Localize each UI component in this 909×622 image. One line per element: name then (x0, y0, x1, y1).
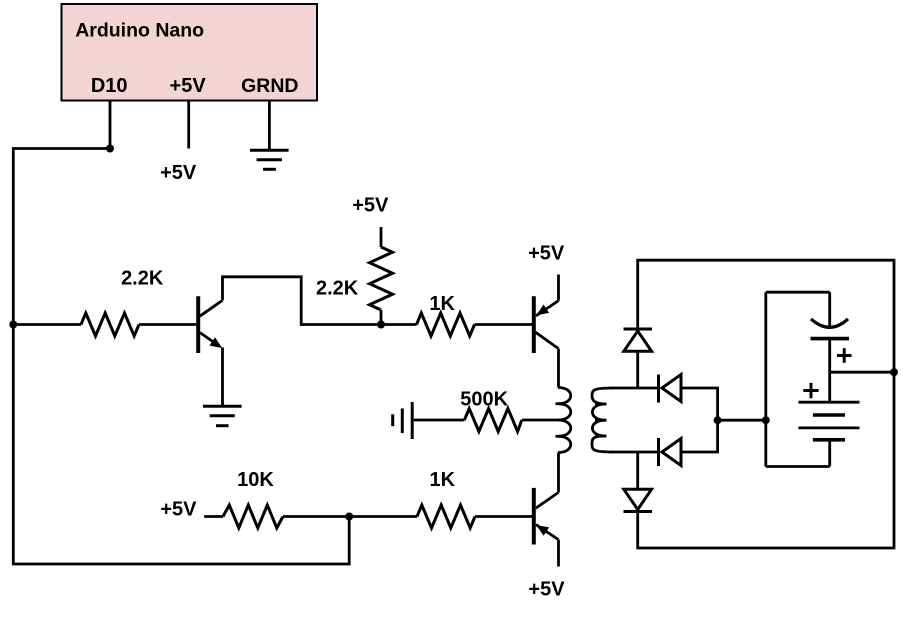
wire R2 to node (380, 310, 383, 325)
svg-text:10K: 10K (237, 469, 274, 491)
svg-text:+5V: +5V (528, 579, 565, 601)
capacitor C1 curved plate (811, 319, 848, 327)
ground (Arduino GRND) (250, 150, 289, 169)
svg-text:GRND: GRND (241, 75, 298, 97)
wire filter bottom (766, 465, 830, 468)
wire left rail to R1 (13, 323, 81, 326)
wire to capacitor C1 (828, 292, 831, 326)
wire center tap (522, 419, 564, 422)
wire D3 to corner (681, 420, 718, 452)
wire node to R3 (381, 323, 417, 326)
transistor Q3 (534, 488, 559, 545)
wire D1 to secondary top (636, 351, 639, 388)
resistor R2 2.2K vertical (370, 247, 393, 310)
svg-text:+5V: +5V (170, 75, 207, 97)
diode D3 (left-pointing, bottom) (659, 438, 682, 466)
resistor R6 500K (464, 409, 521, 432)
svg-text:+5V: +5V (528, 242, 565, 264)
wire filter left rail (764, 292, 767, 466)
wire R1 to Q1 base (139, 323, 196, 326)
transistor Q1 (198, 296, 222, 353)
wire battery to bottom (828, 440, 831, 467)
wire Q1 emitter (221, 348, 224, 406)
wire Q2 collector to primary coil (557, 349, 560, 388)
capacitor C1 flat plate (811, 337, 850, 341)
wire +5V to R2 (380, 227, 383, 247)
primary cusp ticks (556, 402, 566, 405)
node output on right rail (890, 368, 898, 376)
wire Q3 collector to primary coil (557, 453, 560, 493)
resistor R4 10K (223, 505, 283, 528)
wire Q3 emitter to +5V (557, 540, 560, 567)
C1 polarity plus (837, 348, 852, 363)
wire left rail lower (13, 325, 349, 565)
wire output to right rail (830, 371, 894, 374)
wire bridge output (718, 419, 766, 422)
transformer T1 secondary winding (592, 388, 613, 452)
node R2/R3 junction (377, 321, 385, 329)
node filter input (762, 416, 770, 424)
node bridge output (714, 416, 722, 424)
wire node to R5 (349, 515, 417, 518)
svg-text:+5V: +5V (160, 499, 197, 521)
wire filter top (766, 291, 830, 294)
transformer T1 primary winding (558, 388, 571, 453)
wire D10 pin (109, 101, 112, 149)
resistor R1 2.2K (81, 313, 139, 336)
wire +5V pin (187, 101, 190, 149)
resistor R3 1K (417, 313, 475, 336)
secondary cusp ticks (595, 403, 607, 406)
wire C1 to output node (828, 339, 831, 373)
svg-text:2.2K: 2.2K (121, 268, 164, 290)
outer loop top (638, 260, 894, 548)
wire R5 to Q3 base (475, 515, 532, 518)
svg-text:1K: 1K (430, 469, 456, 491)
svg-text:1K: 1K (429, 293, 455, 315)
wire Q1 collector (223, 277, 378, 325)
wire Q2 emitter to +5V (557, 275, 560, 301)
wire secondary bottom line (611, 451, 657, 454)
wire ground to R6 (414, 419, 465, 422)
wire +5V to R4 (204, 515, 223, 518)
diode D4 (down-pointing) (624, 489, 653, 511)
wire D10 to left rail (13, 149, 110, 325)
svg-text:+5V: +5V (352, 194, 389, 216)
wire GRND pin (268, 101, 271, 151)
svg-text:500K: 500K (460, 389, 508, 411)
resistor R5 1K (417, 505, 475, 528)
ground (center tap, rotated) (393, 402, 413, 439)
diode D1 (up-pointing) (624, 329, 653, 351)
node bottom junction (345, 513, 353, 521)
ground (Q1 emitter) (203, 406, 242, 426)
wire secondary top line (611, 387, 657, 390)
transistor Q2 (534, 296, 559, 353)
wire R4 to node (283, 515, 349, 518)
battery BT1 plates (798, 401, 859, 404)
wire D2 to corner (681, 388, 718, 420)
svg-text:2.2K: 2.2K (316, 278, 359, 300)
node left rail junction (9, 321, 17, 329)
wire secondary bottom to D4 (636, 452, 639, 489)
Arduino Nano module U1 (62, 4, 318, 101)
node D10 junction (106, 145, 114, 153)
svg-text:Arduino Nano: Arduino Nano (75, 20, 204, 42)
wire R3 to Q2 base (475, 323, 533, 326)
wire to battery BT1 (828, 372, 831, 402)
BT1 polarity plus (803, 383, 818, 398)
svg-text:D10: D10 (91, 75, 128, 97)
svg-text:+5V: +5V (160, 162, 197, 184)
diode D2 (left-pointing, top) (659, 375, 682, 403)
